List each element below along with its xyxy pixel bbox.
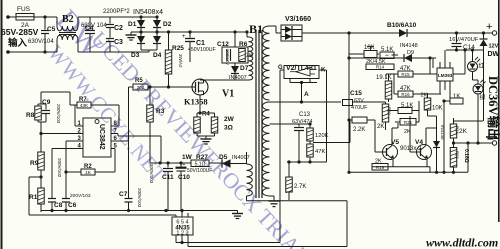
wire bridge bottom: [141, 49, 157, 51]
transformer B1 secondary winding lower: [262, 102, 269, 196]
wire pin1 riser: [74, 105, 76, 126]
capacitor C9: [41, 103, 46, 105]
svg-text:200V/103: 200V/103: [56, 104, 61, 124]
pin LM393 bottom: [439, 81, 441, 94]
wire V4 emitter: [426, 159, 428, 167]
node bridge mid left: [139, 30, 142, 33]
wire minus rail: [454, 142, 493, 144]
wire lm393 to 1K: [449, 90, 451, 98]
wire secondary top lead: [270, 25, 277, 27]
node C1 top: [188, 30, 191, 33]
svg-text:1K: 1K: [85, 170, 92, 176]
diode D4: [156, 32, 158, 36]
resistor R16: [398, 91, 413, 97]
wire V4 base: [410, 151, 421, 153]
wire red led down: [472, 72, 474, 81]
resistor R3: [149, 87, 151, 105]
svg-text:R25: R25: [172, 45, 184, 52]
wire mesh row1b: [349, 57, 392, 59]
ground at bridge: [130, 32, 132, 35]
svg-text:C12: C12: [217, 41, 229, 48]
resistor R19: [372, 164, 388, 171]
svg-text:R4: R4: [202, 112, 210, 118]
svg-text:2W: 2W: [224, 116, 235, 123]
pin 4N35 top stubs: [181, 211, 183, 218]
svg-text:C7: C7: [119, 191, 128, 198]
svg-text:D1: D1: [128, 21, 137, 28]
node pin2: [39, 132, 42, 135]
wire drain to mosfet: [199, 79, 201, 80]
svg-text:C3: C3: [114, 39, 123, 46]
capacitor C15: [343, 100, 353, 106]
node gate R25: [167, 85, 170, 88]
resistor R14: [366, 64, 394, 70]
ic LM393: [437, 68, 453, 81]
node fb mid: [308, 160, 311, 163]
terminal plus: [492, 31, 496, 35]
wire rail to plus terminal: [407, 32, 492, 34]
wire V5 collector: [391, 128, 393, 141]
svg-text:R1: R1: [29, 194, 38, 201]
choke B2 top winding: [56, 17, 58, 26]
svg-text:C1: C1: [196, 40, 205, 47]
resistor 47K lower: [309, 141, 311, 144]
resistor 19.1K: [385, 81, 392, 99]
svg-text:2K: 2K: [459, 128, 468, 135]
resistor R20: [382, 104, 389, 122]
diode D5: [222, 159, 231, 168]
pin 4N35 bottom stubs: [175, 235, 177, 243]
svg-text:D2: D2: [163, 21, 172, 28]
svg-text:2K: 2K: [377, 124, 384, 130]
choke B2 bottom winding: [56, 40, 58, 52]
capacitor C6: [62, 198, 70, 200]
diode D1: [140, 17, 142, 20]
wire mesh left join: [393, 74, 395, 94]
svg-text:D4: D4: [153, 52, 162, 59]
resistor R7 43K: [70, 104, 77, 106]
svg-text:R9: R9: [30, 160, 39, 167]
fuse FUS 2A: [16, 14, 34, 21]
svg-text:+: +: [183, 162, 186, 168]
wire bridge top: [110, 16, 157, 18]
svg-text:19.1K: 19.1K: [376, 75, 392, 81]
ic UC3842 box: [83, 118, 111, 157]
resistor R2 1K: [66, 171, 81, 173]
node C13 tap: [308, 122, 311, 125]
diode D8: [436, 116, 438, 141]
wire pin4 drop: [51, 149, 53, 199]
svg-text:R21: R21: [404, 120, 413, 125]
wire green led down: [477, 94, 479, 143]
frame right border: [498, 0, 500, 222]
svg-text:IN5408x4: IN5408x4: [133, 9, 163, 16]
node snubber top: [233, 30, 236, 33]
pin 2: [41, 133, 83, 135]
svg-text:47K: 47K: [315, 149, 325, 155]
svg-text:2200PF*2: 2200PF*2: [103, 9, 130, 15]
svg-text:绿: 绿: [480, 94, 486, 102]
svg-text:C11: C11: [162, 174, 174, 181]
resistor R18: [398, 108, 412, 114]
svg-text:3W/A2: 3W/A2: [178, 54, 183, 68]
svg-text:B10/6A10: B10/6A10: [387, 22, 417, 29]
svg-text:UC3842: UC3842: [98, 124, 105, 150]
svg-text:C10: C10: [178, 174, 190, 181]
wire tl431 anode down: [289, 79, 291, 83]
capacitor C3: [106, 38, 114, 40]
ground at source: [205, 136, 207, 139]
pin 3: [66, 140, 83, 142]
wire zener drop: [483, 33, 485, 39]
node bus C8: [50, 209, 53, 212]
pin 4: [52, 148, 83, 150]
svg-text:R14: R14: [376, 64, 385, 69]
node 2.7K top: [287, 160, 290, 163]
svg-text:5.1Ω: 5.1Ω: [195, 161, 206, 167]
svg-text:A: A: [304, 91, 309, 98]
resistor R26: [450, 148, 457, 168]
svg-text:C9: C9: [42, 99, 51, 106]
node bridge mid right: [155, 30, 158, 33]
diode D3: [140, 32, 142, 36]
trimmer 10K: [364, 51, 377, 58]
resistor R17 2K: [400, 119, 416, 126]
svg-text:B2: B2: [62, 14, 74, 25]
svg-text:K1358: K1358: [184, 97, 208, 107]
capacitor C2: [109, 17, 111, 24]
wire led row: [446, 49, 484, 51]
wire vertical fb B: [326, 70, 328, 162]
svg-text:R2: R2: [84, 164, 92, 170]
wire vcc to aux: [117, 134, 119, 137]
resistor R4: [196, 113, 198, 117]
resistor R6: [239, 49, 246, 62]
svg-text:R8: R8: [26, 112, 35, 119]
svg-text:C13: C13: [299, 112, 311, 118]
wire vertical fb A: [279, 70, 281, 243]
svg-text:10K: 10K: [432, 106, 443, 112]
wire fuse to choke: [34, 16, 57, 18]
wire rail drop x349: [348, 33, 350, 172]
svg-text:红: 红: [479, 62, 485, 70]
wire bottom mesh bus: [349, 171, 468, 173]
svg-text:FUS: FUS: [17, 6, 31, 13]
wire sense parallel top: [197, 112, 215, 114]
svg-text:D5: D5: [219, 154, 228, 161]
resistor R9: [40, 134, 42, 153]
svg-text:V1: V1: [222, 89, 234, 100]
pin 5: [111, 148, 115, 150]
wire V4 collector: [425, 128, 427, 141]
svg-text:C15: C15: [350, 90, 362, 97]
resistor 2.7K: [288, 162, 290, 177]
diode D10: [399, 29, 407, 37]
capacitor C8: [48, 198, 56, 200]
node primary top: [245, 30, 248, 33]
svg-text:103/1KV: 103/1KV: [225, 49, 230, 65]
svg-text:R3: R3: [156, 108, 165, 115]
svg-text:65V-285V: 65V-285V: [1, 27, 39, 37]
wire c15 to r20: [375, 101, 386, 103]
transformer B1 aux winding: [247, 164, 253, 196]
node R25 top: [167, 30, 170, 33]
wire C13 tap: [270, 123, 311, 125]
wire R8C9 to pin2: [40, 122, 42, 134]
transistor V5: [383, 145, 398, 160]
resistor 10K right: [424, 98, 431, 110]
terminal minus: [492, 141, 496, 145]
transformer B1 primary winding: [246, 32, 248, 37]
svg-text:200V/103: 200V/103: [137, 188, 142, 208]
svg-text:R5: R5: [135, 78, 143, 84]
pin LM393 top: [439, 62, 441, 68]
svg-text:470UF: 470UF: [351, 105, 368, 111]
wire lm393 out right: [453, 73, 465, 75]
node bus C11: [164, 209, 167, 212]
resistor R15: [398, 71, 413, 77]
wire mesh row1: [349, 53, 364, 55]
led V green: [473, 84, 483, 94]
wire R7 left loop: [69, 92, 71, 105]
wire bridge mid bus: [131, 31, 247, 33]
pin 7: [111, 133, 118, 135]
svg-text:+: +: [486, 21, 492, 33]
svg-text:C5: C5: [47, 26, 56, 33]
resistor 5.1K upper: [380, 52, 394, 59]
wire fb loop bottom: [247, 200, 348, 202]
diode D7: [234, 63, 236, 66]
node bus opto: [180, 209, 183, 212]
svg-text:+: +: [182, 34, 186, 40]
wire tl431 left: [280, 69, 284, 71]
wire V5 base: [375, 151, 387, 153]
capacitor C10: [180, 163, 182, 167]
capacitor C12: [226, 49, 228, 61]
svg-text:IN4148: IN4148: [400, 43, 418, 49]
led V red: [468, 62, 478, 72]
svg-text:V3/1660: V3/1660: [285, 16, 311, 23]
resistor R27 5.1ohm: [191, 160, 209, 167]
wire drain node: [200, 79, 247, 81]
svg-text:R20: R20: [387, 107, 392, 115]
dual diode V3: [281, 25, 302, 41]
svg-text:2.2K: 2.2K: [353, 127, 365, 133]
wire stack mid tap: [313, 142, 350, 144]
node zener top: [482, 31, 485, 34]
wire outer loop left: [29, 176, 41, 178]
wire opto out A: [176, 242, 280, 244]
node D2 top: [155, 15, 158, 18]
tl431 V2 box: [284, 66, 319, 79]
resistor sense 3ohm: [214, 113, 216, 117]
pin 8: [111, 125, 119, 127]
wire pin3 drop: [65, 141, 67, 198]
node R3 top: [148, 85, 151, 88]
wire minus corner: [467, 143, 469, 172]
transformer B1 secondary winding upper: [263, 26, 270, 100]
resistor R8: [38, 103, 41, 105]
wire fb bottom row: [287, 161, 327, 163]
frame left border: [1, 0, 3, 249]
resistor R24: [450, 124, 457, 138]
node rail junction 1: [347, 31, 350, 34]
mosfet V1 K1358: [192, 79, 208, 95]
wire D5 to aux winding: [231, 163, 247, 165]
svg-text:1K: 1K: [453, 94, 460, 100]
wire pin5 drop: [114, 149, 116, 173]
svg-text:63V: 63V: [354, 98, 364, 104]
svg-text:50V/100UF: 50V/100UF: [187, 168, 212, 174]
capacitor C7: [128, 141, 130, 198]
svg-text:DW: DW: [488, 51, 500, 58]
wire secondary bottom lead: [270, 195, 275, 197]
capacitor C14: [456, 33, 458, 43]
wire V3 to rail: [302, 32, 399, 34]
svg-text:D3: D3: [131, 52, 140, 59]
input terminal top: [6, 15, 10, 19]
wire R27 to D5: [209, 162, 222, 164]
svg-text:450V100UF: 450V100UF: [188, 47, 216, 53]
wire gate: [148, 86, 192, 88]
resistor 1K right: [450, 98, 463, 104]
capacitor C13: [298, 124, 300, 127]
svg-text:R6: R6: [239, 41, 248, 48]
opto 4N35 box: [172, 217, 193, 235]
wire source: [199, 95, 201, 113]
wire tl431 right: [319, 69, 327, 71]
node bus C6: [64, 209, 67, 212]
svg-text:C2: C2: [114, 25, 123, 32]
node aux C11: [166, 161, 169, 164]
diode D2: [156, 17, 158, 20]
svg-text:LM393: LM393: [438, 73, 453, 78]
wire C15 tap: [270, 101, 342, 103]
wire emitter bus: [372, 166, 430, 168]
svg-text:R15: R15: [401, 72, 410, 77]
wire input top to fuse: [8, 16, 16, 18]
svg-text:R7: R7: [79, 97, 87, 103]
wire sense bottom: [197, 135, 215, 137]
svg-text:12V: 12V: [489, 44, 499, 50]
transistor V4: [417, 145, 432, 160]
svg-text:R19: R19: [376, 165, 385, 170]
svg-text:V4: V4: [415, 139, 423, 146]
diode D9: [404, 54, 412, 62]
svg-text:V2/TL431: V2/TL431: [286, 65, 317, 72]
resistor 2.2K fb: [349, 119, 352, 121]
snubber box C12 R6: [234, 32, 236, 47]
resistor R1: [38, 188, 45, 204]
svg-text:630V/104: 630V/104: [28, 39, 54, 45]
svg-text:16V/470UF: 16V/470UF: [449, 37, 479, 43]
svg-text:5.1K: 5.1K: [401, 103, 413, 109]
svg-text:www.dltdl.com: www.dltdl.com: [426, 236, 498, 249]
svg-text:2.7K: 2.7K: [294, 184, 306, 190]
capacitor C11: [167, 163, 169, 168]
wire choke to bridge bottom: [78, 51, 149, 53]
svg-text:202: 202: [137, 85, 145, 90]
svg-text:C6: C6: [68, 202, 77, 209]
wire aux row: [150, 162, 191, 164]
resistor 120K: [309, 124, 311, 128]
choke B2 core: [59, 32, 76, 34]
svg-text:3Ω: 3Ω: [224, 125, 233, 132]
capacitor C1 electrolytic: [189, 32, 191, 38]
wire choke to bridge top: [78, 16, 141, 18]
svg-text:200V/103: 200V/103: [70, 193, 91, 199]
ground at transformer bottom: [269, 200, 280, 202]
wire pin8 riser: [118, 105, 120, 126]
node C5 top: [43, 15, 46, 18]
svg-text:DC36V输出: DC36V输出: [486, 76, 500, 141]
wire bottom bus: [41, 210, 238, 212]
node R2 left: [64, 170, 67, 173]
node C5 bottom: [43, 50, 46, 53]
resistor R5: [133, 84, 148, 90]
transformer B1 core: [255, 30, 257, 198]
input terminal bottom: [6, 50, 10, 54]
svg-text:输入: 输入: [8, 37, 28, 49]
svg-text:200V/102: 200V/102: [57, 158, 62, 178]
capacitor C5: [44, 17, 46, 30]
zener DW 12V: [480, 38, 488, 40]
wire mesh top right: [418, 101, 420, 111]
svg-text:C8: C8: [54, 202, 63, 209]
node C14 top: [455, 31, 458, 34]
pin 6: [111, 140, 129, 142]
svg-text:120K: 120K: [315, 133, 329, 139]
svg-text:D7: D7: [240, 65, 249, 72]
label minus: [486, 136, 497, 138]
node aux C10: [179, 161, 182, 164]
svg-text:C4: C4: [85, 25, 94, 32]
svg-text:R16: R16: [401, 92, 410, 97]
wire mesh verticals: [429, 58, 431, 74]
pin 1: [75, 125, 83, 127]
wire bottom input: [8, 51, 57, 53]
wire x444 vertical: [443, 101, 445, 172]
capacitor C4: [89, 17, 91, 30]
svg-text:IN4007: IN4007: [232, 155, 250, 161]
wire primary bottom: [247, 79, 249, 81]
wire pin6 riser: [128, 87, 130, 141]
node bus C7: [127, 209, 130, 212]
svg-text:R26: R26: [455, 151, 460, 159]
wire R24 R26 join: [453, 138, 455, 148]
svg-text:200V/103: 200V/103: [149, 164, 154, 184]
ground at bus end: [237, 211, 239, 214]
svg-text:43K: 43K: [80, 103, 89, 109]
wire opto out B: [188, 246, 347, 248]
node D1 top: [139, 15, 142, 18]
resistor R25: [168, 32, 170, 50]
